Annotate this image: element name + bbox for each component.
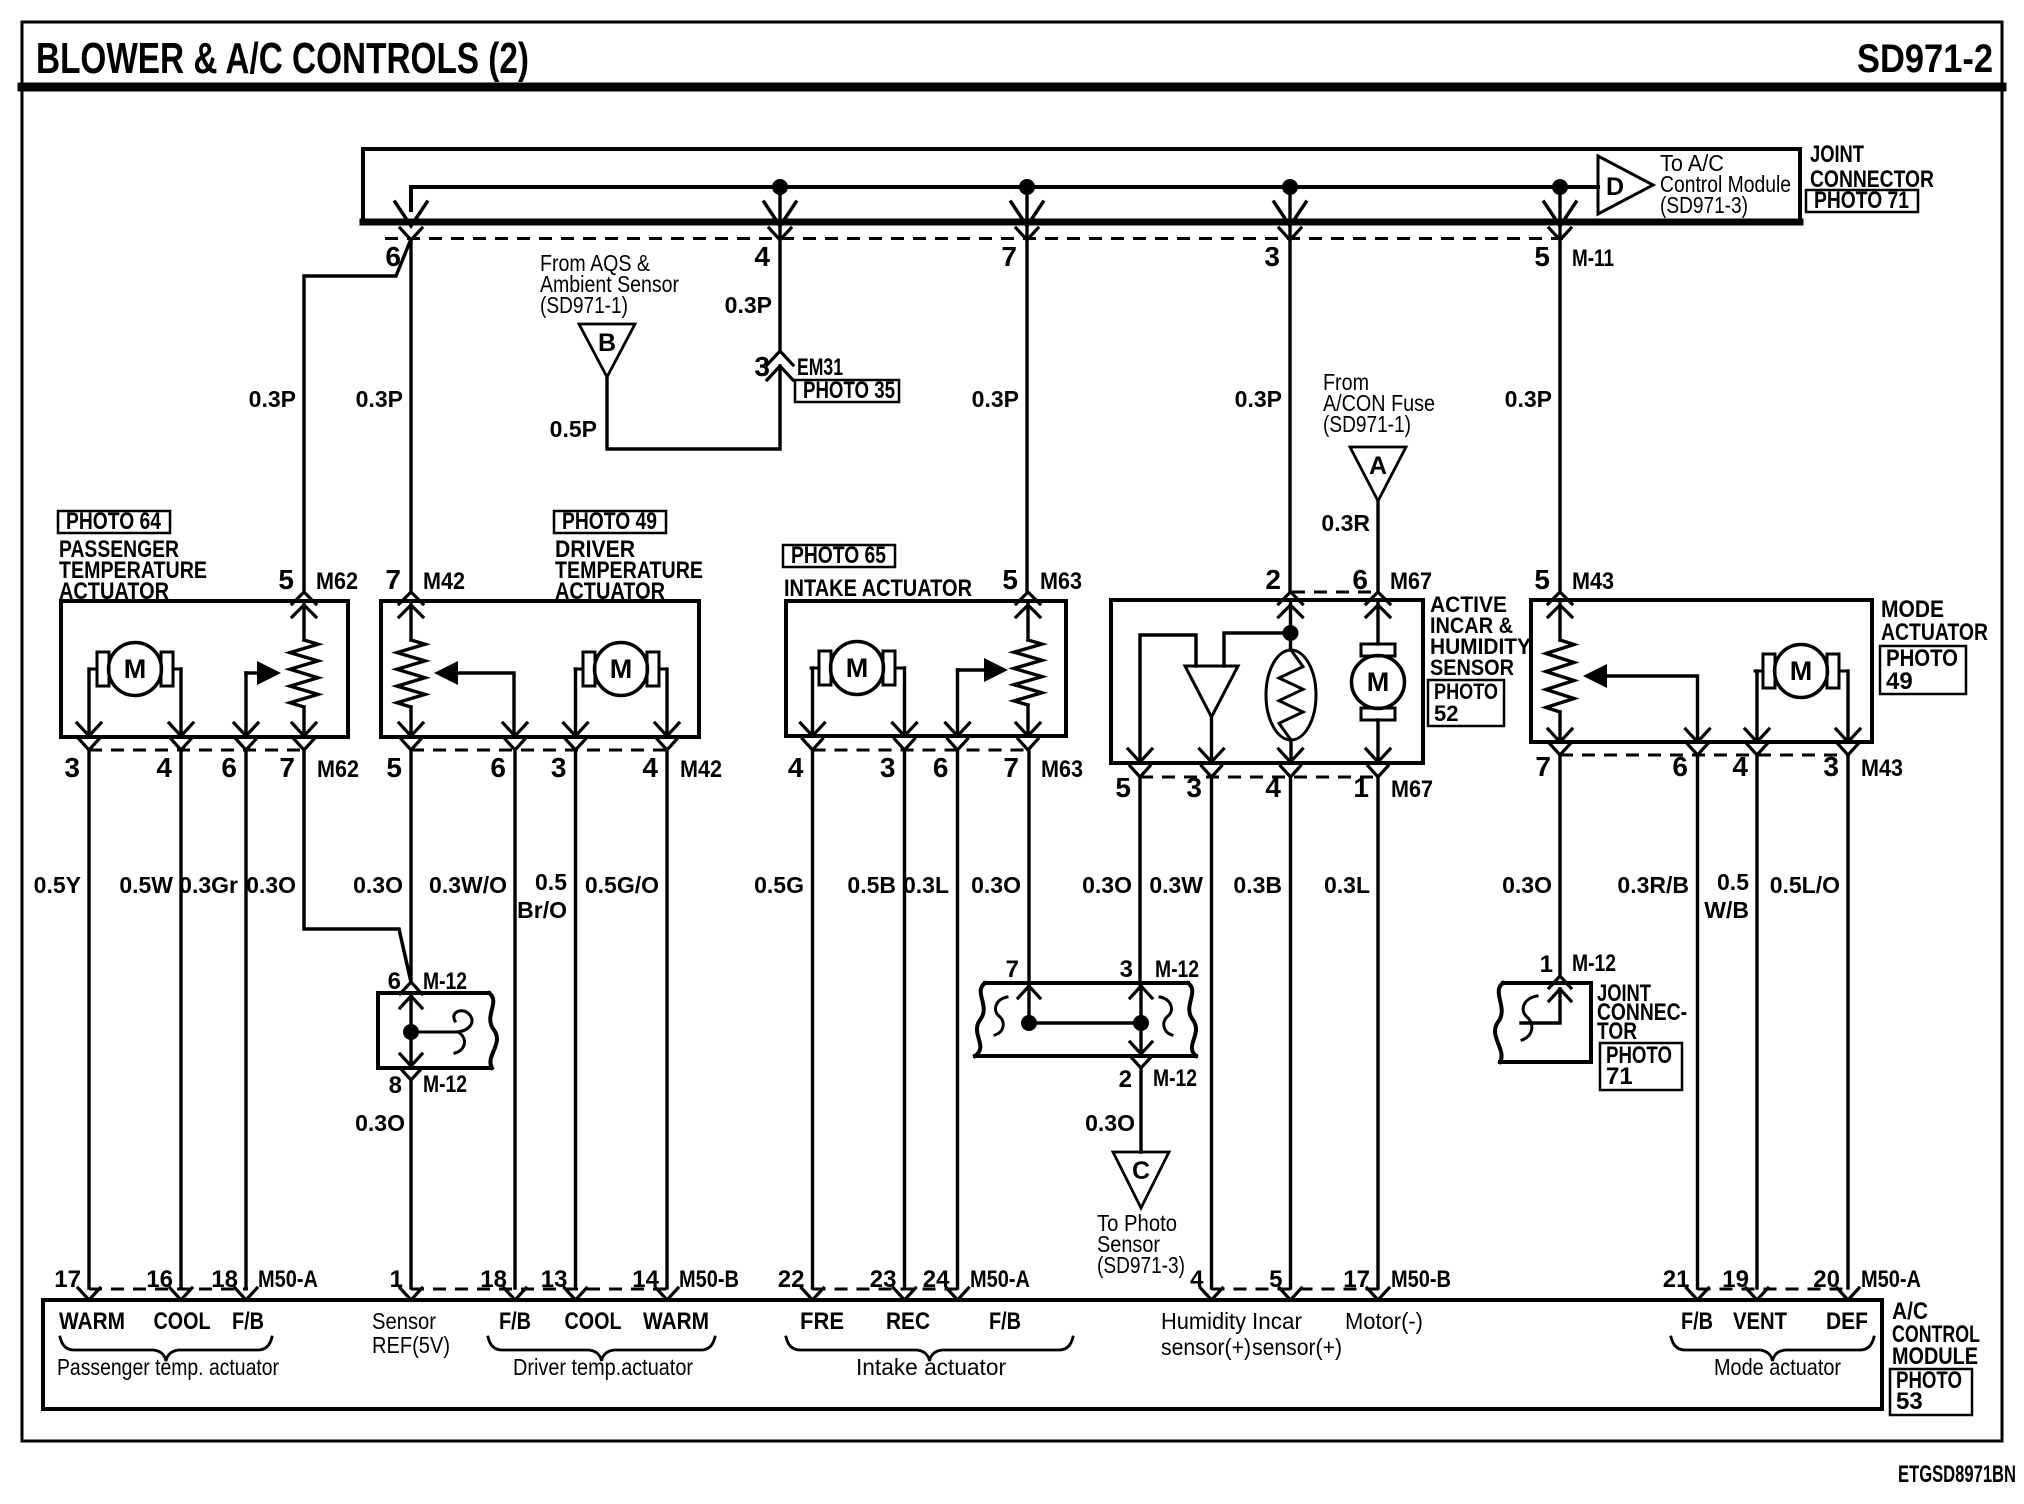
svg-text:M-12: M-12 xyxy=(1155,956,1199,983)
terminal pin 1 (bottom) M67 xyxy=(1366,749,1390,762)
wire 0.3R from triangle A to M67 pin 6 xyxy=(1376,501,1379,592)
svg-text:M63: M63 xyxy=(1041,756,1083,783)
svg-text:0.5Y: 0.5Y xyxy=(34,872,81,898)
label box PHOTO 71 (top) xyxy=(1806,190,1918,212)
svg-text:MODULE: MODULE xyxy=(1892,1343,1978,1370)
dashed connector line M43 bottom xyxy=(1560,754,1850,757)
module terminal pin 18 xyxy=(504,1288,526,1300)
brace passenger temp actuator xyxy=(60,1337,272,1361)
module terminal pin 1 xyxy=(400,1288,422,1300)
terminal pin 3 (bottom) x=904.5 xyxy=(893,723,917,736)
torn right edge (left M-12) xyxy=(489,993,497,1068)
wire 0.3P from bus pin 4 to EM31 xyxy=(778,238,781,352)
wiper arrow (driver) xyxy=(434,661,458,685)
svg-text:TOR: TOR xyxy=(1597,1018,1637,1045)
terminal pin 5 (bottom) x=411 xyxy=(399,723,423,736)
svg-text:5: 5 xyxy=(1002,564,1018,595)
dashed connector line M-11 xyxy=(385,237,1563,240)
label box PHOTO 49 (driver) xyxy=(554,511,666,533)
svg-text:Motor(-): Motor(-) xyxy=(1345,1308,1423,1334)
svg-text:M-12: M-12 xyxy=(423,1071,467,1098)
terminal pin 5 (top) x=1028 xyxy=(1016,592,1040,604)
wire bus pin7 to M63 pin5 xyxy=(1025,239,1028,592)
svg-text:52: 52 xyxy=(1434,701,1458,726)
svg-text:0.3Gr: 0.3Gr xyxy=(179,872,238,898)
bus tap arrow pin 5 M-11 xyxy=(1544,202,1576,226)
terminal pin 8 M-12 chevrons xyxy=(400,1054,422,1066)
wire motor bottom to pin 1 xyxy=(1376,720,1379,761)
svg-text:PHOTO 64: PHOTO 64 xyxy=(66,508,162,535)
wire bus pin3 to M67 pin2 xyxy=(1288,239,1291,592)
svg-text:3: 3 xyxy=(754,351,770,382)
svg-text:4: 4 xyxy=(642,752,658,783)
svg-text:0.5B: 0.5B xyxy=(847,872,896,898)
wire between junction nodes xyxy=(1029,1021,1141,1024)
bus junction node x=1560 xyxy=(1552,179,1568,195)
dashed connector line M50-A (passenger) xyxy=(89,1288,248,1291)
triangle A from A/CON fuse xyxy=(1350,447,1406,501)
pigtail wire inside M-12 xyxy=(411,1011,472,1032)
svg-text:REC: REC xyxy=(886,1308,930,1335)
terminal pin 6 (top) M67 xyxy=(1366,592,1390,604)
wire 0.3O pin5 M42 to joint connector M-12 pin 6 xyxy=(409,750,412,982)
svg-text:Incar: Incar xyxy=(1252,1308,1302,1334)
svg-text:F/B: F/B xyxy=(499,1308,531,1335)
module terminal pin 13 xyxy=(565,1288,587,1300)
terminal pin 2 M-12 chevrons xyxy=(1130,1042,1152,1054)
svg-text:3: 3 xyxy=(64,752,80,783)
svg-text:0.3P: 0.3P xyxy=(725,292,772,318)
svg-text:M50-A: M50-A xyxy=(1861,1266,1921,1293)
svg-text:0.3O: 0.3O xyxy=(353,872,403,898)
wire EM31 down and left to triangle B xyxy=(607,366,780,449)
svg-text:D: D xyxy=(1606,173,1624,201)
motor M (driver) xyxy=(583,652,595,686)
svg-text:COOL: COOL xyxy=(565,1308,622,1335)
svg-text:F/B: F/B xyxy=(989,1308,1021,1335)
wire 0.3O M-12 pin8 to module pin 1 xyxy=(409,1080,412,1288)
svg-text:M62: M62 xyxy=(317,756,359,783)
wire 0.5G/O pin4 M42 to module pin 14 xyxy=(665,750,668,1288)
svg-text:ACTUATOR: ACTUATOR xyxy=(1881,619,1988,646)
joint connector bus box xyxy=(363,149,1800,223)
terminal pin 7 (top) x=411 xyxy=(399,592,423,604)
terminal pin 3 (bottom) x=89 xyxy=(77,723,101,736)
joint connector M-12 (middle) box top/bottom xyxy=(985,981,1188,985)
wire 0.5G pin4 M63 to module pin 22 xyxy=(811,750,814,1288)
dashed connector line M50-A (mode) xyxy=(1698,1288,1851,1291)
module terminal pin 23 xyxy=(894,1288,916,1300)
svg-text:7: 7 xyxy=(1006,956,1019,983)
svg-text:F/B: F/B xyxy=(232,1308,264,1335)
wire motor left to pin 3 xyxy=(87,669,90,735)
svg-text:Mode actuator: Mode actuator xyxy=(1714,1354,1841,1380)
wire 0.5B pin3 M63 to module pin 23 xyxy=(903,750,906,1288)
svg-text:7: 7 xyxy=(385,564,401,595)
svg-text:4: 4 xyxy=(156,752,172,783)
wire motor left to pin 3 xyxy=(574,669,577,735)
wire amplifier output to pin 3 xyxy=(1210,717,1213,761)
junction node (incar sensor) xyxy=(1283,625,1299,641)
wire bus drop x=1560 xyxy=(1558,187,1561,238)
motor M (incar fan) xyxy=(1361,644,1395,656)
wiper arrow (intake) xyxy=(984,658,1008,682)
wire bus pin6 to M62 pin5 (jog left) xyxy=(304,239,411,592)
svg-text:0.3L: 0.3L xyxy=(1324,872,1370,898)
svg-text:M43: M43 xyxy=(1861,755,1903,782)
svg-text:0.3P: 0.3P xyxy=(249,386,296,412)
bus tap arrow pin 7 M-11 xyxy=(1011,202,1043,226)
wire 0.5Y pin3 M62 to module pin 17 xyxy=(87,750,90,1288)
svg-text:0.3P: 0.3P xyxy=(1505,386,1552,412)
svg-text:M67: M67 xyxy=(1390,568,1432,595)
terminal pin 3 (bottom) M43 xyxy=(1836,729,1860,742)
svg-text:M: M xyxy=(1367,667,1390,697)
wire 0.3R/B pin6 M43 to module pin 21 xyxy=(1696,755,1699,1288)
svg-text:4: 4 xyxy=(1190,1266,1204,1293)
svg-text:PHOTO 65: PHOTO 65 xyxy=(791,542,886,569)
module terminal pin 17 xyxy=(1367,1288,1389,1300)
svg-text:sensor(+): sensor(+) xyxy=(1252,1334,1342,1360)
pigtail hook (middle M-12 right) xyxy=(1160,997,1172,1035)
wire inside M-12 to junction xyxy=(409,996,412,1066)
wire 0.5W pin4 M62 to module pin 16 xyxy=(179,750,182,1288)
svg-text:WARM: WARM xyxy=(643,1308,709,1335)
bus junction node x=1027 xyxy=(1019,179,1035,195)
wire 0.3O pin7 M62 to joint connector M-12 pin 6 xyxy=(304,750,411,982)
wire wiper to pin 6 xyxy=(956,670,959,735)
svg-text:M50-A: M50-A xyxy=(970,1266,1030,1293)
wire bus drop x=780 xyxy=(778,187,781,238)
bus junction node x=1290 xyxy=(1282,179,1298,195)
wire bus drop x=1027 xyxy=(1025,187,1028,238)
terminal pin 3 (bottom) x=575.5 xyxy=(564,723,588,736)
pigtail hook (middle M-12 left) xyxy=(995,997,1007,1035)
wire wiper to pin 6 xyxy=(244,673,247,735)
terminal pin 5 (top) x=304 xyxy=(292,592,316,604)
connector EM31 pin 3 (double chevron) xyxy=(767,351,793,365)
svg-text:3: 3 xyxy=(1120,956,1133,983)
bus inner wire xyxy=(411,187,1598,210)
wire 0.3W pin3 M67 to module pin 4 xyxy=(1210,777,1213,1288)
module terminal pin 18 xyxy=(235,1288,257,1300)
svg-text:INTAKE ACTUATOR: INTAKE ACTUATOR xyxy=(784,575,972,602)
wire pin 6 to motor top xyxy=(1376,602,1379,644)
svg-text:21: 21 xyxy=(1663,1266,1690,1293)
wire 0.3W/O pin6 M42 to module pin 18 xyxy=(513,750,516,1288)
svg-text:A: A xyxy=(1369,452,1387,480)
dashed connector line M67 top xyxy=(1292,591,1376,594)
module terminal pin 19 xyxy=(1746,1288,1768,1300)
label box PHOTO 71 (right M-12) xyxy=(1600,1043,1682,1090)
svg-text:0.3L: 0.3L xyxy=(903,872,949,898)
dashed connector line M50-A (intake) xyxy=(813,1288,960,1291)
module terminal pin 16 xyxy=(170,1288,192,1300)
component box: driver temperature actuator xyxy=(381,601,699,737)
wire 0.3O pin5 M67 to joint connector M-12 pin 3 xyxy=(1138,777,1141,984)
svg-text:5: 5 xyxy=(1534,241,1550,272)
svg-text:5: 5 xyxy=(386,752,402,783)
svg-text:M-12: M-12 xyxy=(1572,950,1616,977)
svg-text:1: 1 xyxy=(1540,951,1553,978)
dashed connector line M63 bottom xyxy=(813,749,1031,752)
svg-text:Intake actuator: Intake actuator xyxy=(856,1354,1006,1380)
wire 0.3L pin1 M67 to module pin 17 xyxy=(1376,777,1379,1288)
svg-text:B: B xyxy=(598,329,616,357)
label box PHOTO 53 xyxy=(1890,1369,1972,1415)
wire 0.5L/O pin3 M43 to module pin 20 xyxy=(1846,755,1849,1288)
svg-text:3: 3 xyxy=(1264,241,1280,272)
svg-text:M42: M42 xyxy=(680,756,722,783)
svg-text:FRE: FRE xyxy=(800,1308,844,1335)
svg-text:M-12: M-12 xyxy=(423,968,467,995)
junction node left (middle M-12) xyxy=(1021,1015,1037,1031)
svg-text:M50-A: M50-A xyxy=(258,1266,318,1293)
terminal pin 4 (bottom) M43 xyxy=(1745,729,1769,742)
triangle D to A/C control module xyxy=(1598,156,1653,214)
torn right edge (middle M-12) xyxy=(1188,983,1196,1056)
svg-text:5: 5 xyxy=(1115,772,1131,803)
svg-text:4: 4 xyxy=(754,241,770,272)
svg-text:PHOTO 71: PHOTO 71 xyxy=(1814,187,1909,214)
wire inside right M-12 xyxy=(1521,989,1560,1023)
svg-text:5: 5 xyxy=(1534,564,1550,595)
svg-text:6: 6 xyxy=(1352,564,1368,595)
terminal pin 2 (top) M67 xyxy=(1279,592,1303,604)
potentiometer resistor (mode) xyxy=(1558,600,1561,640)
svg-text:3: 3 xyxy=(551,752,567,783)
label box PHOTO 35 xyxy=(795,380,899,402)
motor M (intake) xyxy=(819,651,831,685)
svg-text:(SD971-1): (SD971-1) xyxy=(1323,411,1411,437)
module terminal pin 4 xyxy=(1201,1288,1223,1300)
svg-text:8: 8 xyxy=(389,1072,402,1099)
svg-text:M-11: M-11 xyxy=(1572,245,1614,272)
dashed connector line M62 bottom xyxy=(89,749,306,752)
svg-text:C: C xyxy=(1132,1157,1150,1185)
wire motor right to pin 3 xyxy=(903,668,906,735)
label box PHOTO 49 (mode) xyxy=(1880,646,1966,694)
label box PHOTO 52 xyxy=(1428,680,1504,726)
terminal pin 4 (bottom) x=181 xyxy=(169,723,193,736)
svg-text:4: 4 xyxy=(788,752,804,783)
triangle B from AQS & ambient sensor xyxy=(579,324,635,377)
wire motor left to pin 4 xyxy=(811,668,814,735)
wire node to amplifier right input xyxy=(1224,633,1291,666)
svg-text:0.3O: 0.3O xyxy=(1502,872,1552,898)
terminal pin 3 chevron + wire to junction xyxy=(1130,986,1152,998)
svg-text:VENT: VENT xyxy=(1733,1308,1787,1335)
terminal pin 4 (bottom) x=812.5 xyxy=(801,723,825,736)
svg-text:(SD971-1): (SD971-1) xyxy=(540,292,628,318)
svg-text:0.5W: 0.5W xyxy=(119,872,173,898)
svg-text:0.3O: 0.3O xyxy=(246,872,296,898)
wire motor right to pin 3 xyxy=(1846,671,1849,740)
svg-text:3: 3 xyxy=(880,752,896,783)
svg-text:0.5P: 0.5P xyxy=(550,416,597,442)
svg-text:5: 5 xyxy=(278,564,294,595)
terminal pin 6 (bottom) x=246 xyxy=(234,723,258,736)
svg-text:0.5: 0.5 xyxy=(1717,869,1749,895)
terminal pin 5 (top) x=1560 xyxy=(1548,592,1572,604)
terminal pin 5 (bottom) M67 xyxy=(1128,749,1152,762)
svg-text:0.5G: 0.5G xyxy=(754,872,804,898)
component box: active incar & humidity sensor xyxy=(1111,600,1423,763)
dashed connector line M67 bottom xyxy=(1140,776,1380,779)
svg-text:M: M xyxy=(846,653,869,683)
triangle C to photo sensor xyxy=(1113,1152,1169,1208)
svg-text:M42: M42 xyxy=(423,568,465,595)
wire motor left to pin 4 xyxy=(1755,671,1758,740)
wire 0.3O pin7 M43 to joint connector M-12 pin 1 xyxy=(1558,755,1561,976)
potentiometer resistor (intake) xyxy=(1026,601,1029,640)
wire bus pin6 to M42 pin7 xyxy=(409,239,412,592)
bus tap arrow pin 6 M-11 xyxy=(395,202,427,226)
terminal pin 6 (bottom) M43 xyxy=(1686,729,1710,742)
module terminal pin 5 xyxy=(1280,1288,1302,1300)
bus tap arrow pin 3 M-11 xyxy=(1274,202,1306,226)
terminal pin 7 chevron + wire to junction xyxy=(1018,986,1040,998)
label box PHOTO 64 xyxy=(58,511,170,533)
svg-text:M: M xyxy=(610,654,633,684)
module terminal pin 14 xyxy=(656,1288,678,1300)
svg-text:M50-B: M50-B xyxy=(679,1266,739,1293)
terminal pin 6 M-12 chevrons xyxy=(400,982,422,994)
svg-text:F/B: F/B xyxy=(1681,1308,1713,1335)
torn left edge (middle M-12) xyxy=(975,983,985,1056)
wire 0.3Gr pin6 M62 to module pin 18 xyxy=(244,750,247,1288)
label box PHOTO 65 xyxy=(783,545,895,567)
terminal pin 6 (bottom) x=957.5 xyxy=(946,723,970,736)
svg-text:6: 6 xyxy=(490,752,506,783)
joint connector M-12 (left) box xyxy=(378,993,489,1068)
wire thermistor to pin 4 xyxy=(1289,740,1292,761)
wiper arrow (mode) xyxy=(1583,664,1607,688)
svg-text:REF(5V): REF(5V) xyxy=(372,1332,450,1358)
terminal pin 7 (bottom) M43 xyxy=(1548,729,1572,742)
dashed connector line M50-B (sensor) xyxy=(1212,1288,1381,1291)
wire 0.3B pin4 M67 to module pin 5 xyxy=(1289,777,1292,1288)
terminal pin 4 (bottom) x=667 xyxy=(655,723,679,736)
A/C control module box xyxy=(43,1300,1882,1409)
svg-text:Br/O: Br/O xyxy=(517,897,567,923)
svg-text:49: 49 xyxy=(1886,668,1913,695)
svg-text:7: 7 xyxy=(1003,752,1019,783)
wire 0.5W/B pin4 M43 to module pin 19 xyxy=(1755,755,1758,1288)
wiper arrow (passenger) xyxy=(257,661,281,685)
module terminal pin 17 xyxy=(78,1288,100,1300)
brace driver temp actuator xyxy=(488,1337,715,1361)
svg-text:M62: M62 xyxy=(316,568,358,595)
svg-text:Sensor: Sensor xyxy=(372,1308,436,1334)
svg-text:0.3O: 0.3O xyxy=(971,872,1021,898)
svg-text:2: 2 xyxy=(1119,1066,1132,1093)
wire motor right to pin 4 xyxy=(665,669,668,735)
svg-text:6: 6 xyxy=(933,752,949,783)
svg-text:1: 1 xyxy=(390,1266,403,1293)
wire 0.3O pin7 M63 to joint connector M-12 pin 7 xyxy=(1027,750,1030,984)
terminal pin 6 (bottom) x=515 xyxy=(503,723,527,736)
svg-text:Driver temp.actuator: Driver temp.actuator xyxy=(513,1354,693,1380)
bus thick bottom line xyxy=(363,219,1800,226)
svg-text:0.5G/O: 0.5G/O xyxy=(585,872,659,898)
svg-text:0.3W: 0.3W xyxy=(1149,872,1203,898)
wire junction down through pin 2 xyxy=(1139,1023,1142,1054)
svg-text:Humidity: Humidity xyxy=(1161,1308,1246,1334)
svg-text:ETGSD8971BN: ETGSD8971BN xyxy=(1898,1461,2016,1488)
title bar rule xyxy=(22,83,2002,92)
svg-text:6: 6 xyxy=(388,968,401,995)
wire node to thermistor xyxy=(1289,633,1292,650)
svg-text:PHOTO 35: PHOTO 35 xyxy=(803,377,895,404)
bus tap arrow pin 4 M-11 xyxy=(764,202,796,226)
wire motor right to pin 4 xyxy=(179,669,182,735)
svg-text:22: 22 xyxy=(778,1266,805,1293)
svg-text:0.3O: 0.3O xyxy=(1082,872,1132,898)
module terminal pin 24 xyxy=(947,1288,969,1300)
svg-text:SD971-2: SD971-2 xyxy=(1857,37,1993,81)
svg-text:7: 7 xyxy=(279,752,295,783)
brace intake actuator xyxy=(786,1337,1073,1361)
svg-text:(SD971-3): (SD971-3) xyxy=(1097,1252,1185,1278)
svg-text:WARM: WARM xyxy=(59,1308,125,1335)
terminal pin 3 (bottom) M67 xyxy=(1200,749,1224,762)
svg-text:17: 17 xyxy=(54,1266,81,1293)
terminal pin 1 M-12 chevrons xyxy=(1549,976,1571,988)
wire 0.3O M-12 pin 2 to triangle C xyxy=(1139,1068,1142,1152)
svg-text:71: 71 xyxy=(1606,1063,1633,1090)
svg-text:M43: M43 xyxy=(1572,568,1614,595)
wire pin 2 to node xyxy=(1289,602,1292,633)
svg-text:0.3O: 0.3O xyxy=(1085,1110,1135,1136)
svg-text:0.3W/O: 0.3W/O xyxy=(429,872,507,898)
svg-text:JOINT: JOINT xyxy=(1810,141,1864,168)
module terminal pin 22 xyxy=(802,1288,824,1300)
component box: intake actuator xyxy=(786,601,1066,736)
bus junction node x=780 xyxy=(772,179,788,195)
wire 0.5Br/O pin3 M42 to module pin 13 xyxy=(574,750,577,1288)
motor M (mode) xyxy=(1763,654,1775,688)
svg-text:53: 53 xyxy=(1896,1388,1923,1415)
module terminal pin 20 xyxy=(1837,1288,1859,1300)
svg-text:0.3P: 0.3P xyxy=(1235,386,1282,412)
svg-text:0.3P: 0.3P xyxy=(972,386,1019,412)
wire bus drop x=1290 xyxy=(1288,187,1291,238)
torn left edge (right M-12) xyxy=(1495,983,1503,1062)
svg-text:M67: M67 xyxy=(1391,776,1433,803)
svg-text:W/B: W/B xyxy=(1704,897,1749,923)
svg-text:DEF: DEF xyxy=(1826,1308,1868,1335)
svg-text:sensor(+): sensor(+) xyxy=(1161,1334,1251,1360)
svg-text:0.3P: 0.3P xyxy=(356,386,403,412)
svg-text:0.3R/B: 0.3R/B xyxy=(1617,872,1689,898)
terminal pin 7 (bottom) x=1028 xyxy=(1016,723,1040,736)
brace mode actuator xyxy=(1671,1337,1874,1361)
amplifier triangle (incar sensor) xyxy=(1185,666,1238,717)
svg-text:Passenger temp. actuator: Passenger temp. actuator xyxy=(57,1354,279,1380)
junction node right (middle M-12) xyxy=(1133,1015,1149,1031)
junction node inside M-12 xyxy=(403,1024,419,1040)
motor M (passenger) xyxy=(97,652,109,686)
wire 0.3L pin6 M63 to module pin 24 xyxy=(956,750,959,1288)
component box: passenger temperature actuator xyxy=(61,601,348,737)
dashed connector line M50-B (driver) xyxy=(411,1288,669,1291)
svg-text:PHOTO 49: PHOTO 49 xyxy=(562,508,657,535)
potentiometer resistor (driver) xyxy=(409,601,412,640)
thermistor (humidity sensor) xyxy=(1266,650,1316,740)
svg-text:0.5: 0.5 xyxy=(535,869,567,895)
svg-text:M50-B: M50-B xyxy=(1391,1266,1451,1293)
